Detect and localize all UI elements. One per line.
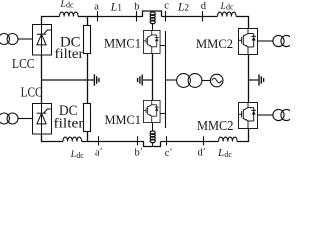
wire top DC bus left corner segment <box>42 17 60 25</box>
wire MMC2 chain midpoint <box>248 55 250 103</box>
wire right ground stub <box>249 79 259 81</box>
wire top DC bus middle segment <box>78 16 143 18</box>
svg-text:a′: a′ <box>95 147 102 158</box>
wire bottom DC bus left corner segment <box>42 134 64 142</box>
wire DC filter top drop <box>87 17 89 26</box>
svg-text:MMC1: MMC1 <box>104 37 141 51</box>
svg-text:L1: L1 <box>110 2 122 14</box>
node d' tick <box>203 136 205 145</box>
node a tick <box>97 11 99 22</box>
svg-text:L2: L2 <box>177 2 189 14</box>
inductor Ldc bottom-right coil <box>218 137 237 141</box>
inductor arm coil bottom MMC1 <box>152 123 154 131</box>
wire busbar to transformer T3 <box>166 79 177 81</box>
wire top bridge over MMC1 tap <box>143 11 162 17</box>
ground left electrode <box>94 74 99 85</box>
svg-text:filter: filter <box>54 117 84 132</box>
node d tick <box>202 11 204 22</box>
svg-text:c: c <box>164 1 169 12</box>
svg-text:b′: b′ <box>135 147 143 158</box>
svg-text:Ldc: Ldc <box>60 0 74 10</box>
transformer T4 top-right <box>273 35 284 46</box>
wire DC filter bottom drop <box>87 132 89 142</box>
wire transformer T2 to LCC2 <box>18 118 33 120</box>
wire bottom bridge under MMC1 tap <box>144 142 161 147</box>
svg-text:d′: d′ <box>198 147 206 158</box>
svg-text:Ldc: Ldc <box>217 147 232 158</box>
inductor Ldc bottom-left coil <box>63 137 82 141</box>
wire MMC1 AC busbar <box>165 31 167 128</box>
AC source G1 <box>210 74 223 87</box>
svg-text:Ldc: Ldc <box>70 150 84 158</box>
wire DC filter top to ground line <box>87 54 89 81</box>
LCC converter valve top <box>33 25 52 56</box>
inductor Ldc top-left coil <box>59 12 78 16</box>
wire bottom DC bus right segment <box>161 141 219 143</box>
MMC2 bottom converter module <box>239 103 258 129</box>
transformer T5 bottom-right <box>273 109 284 120</box>
MMC2 top converter module <box>239 29 258 55</box>
MMC1 top converter module <box>143 30 160 53</box>
svg-text:d: d <box>201 1 207 12</box>
DC filter top element <box>84 26 91 54</box>
svg-text:c′: c′ <box>165 148 172 158</box>
wire transformer T1 to LCC1 <box>18 38 33 40</box>
wire LCC chain through midpoint <box>41 56 43 104</box>
node c tick <box>165 11 167 22</box>
node b tick <box>136 11 138 22</box>
node c' tick <box>166 136 168 145</box>
wire MMC2 bottom AC stub <box>258 114 273 116</box>
inductor Ldc top-right coil <box>217 12 236 16</box>
wire MMC1 chain midpoint <box>152 54 154 101</box>
transformer T3 center <box>177 74 191 88</box>
svg-text:MMC2: MMC2 <box>196 37 233 51</box>
svg-text:b: b <box>134 2 139 13</box>
MMC1 bottom converter module <box>143 100 160 122</box>
wire left ground branch <box>42 79 94 81</box>
wire top DC bus right segment <box>162 16 218 18</box>
wire bottom bus corner up to MMC2 <box>237 129 248 142</box>
svg-text:LCC: LCC <box>12 57 35 72</box>
inductor arm coil top MMC1 <box>152 11 154 12</box>
wire transformer T3 to AC source <box>202 80 211 82</box>
transformer T2 bottom-left <box>0 113 10 124</box>
wire MMC1 bottom AC stub <box>161 113 166 115</box>
transformer T1 top-left <box>0 34 10 45</box>
ground right electrode <box>259 74 264 85</box>
LCC converter valve bottom <box>33 104 52 135</box>
svg-text:MMC2: MMC2 <box>197 118 234 133</box>
svg-text:Ldc: Ldc <box>220 2 234 12</box>
node b' tick <box>137 136 139 145</box>
svg-text:LCC: LCC <box>21 85 43 100</box>
svg-text:a: a <box>94 2 99 13</box>
wire MMC1 top AC stub <box>161 45 166 47</box>
svg-text:MMC1: MMC1 <box>105 113 142 127</box>
wire MMC2 top AC stub <box>258 40 273 42</box>
wire center ground stub <box>143 79 153 81</box>
wire DC filter bottom from ground line <box>87 80 89 104</box>
wire bottom DC bus middle segment <box>82 141 144 143</box>
DC filter bottom element <box>84 104 91 132</box>
svg-text:filter: filter <box>55 47 84 62</box>
wire top bus corner down to MMC2 <box>236 17 248 29</box>
ground center electrode <box>138 75 143 86</box>
node a' tick <box>98 136 100 145</box>
